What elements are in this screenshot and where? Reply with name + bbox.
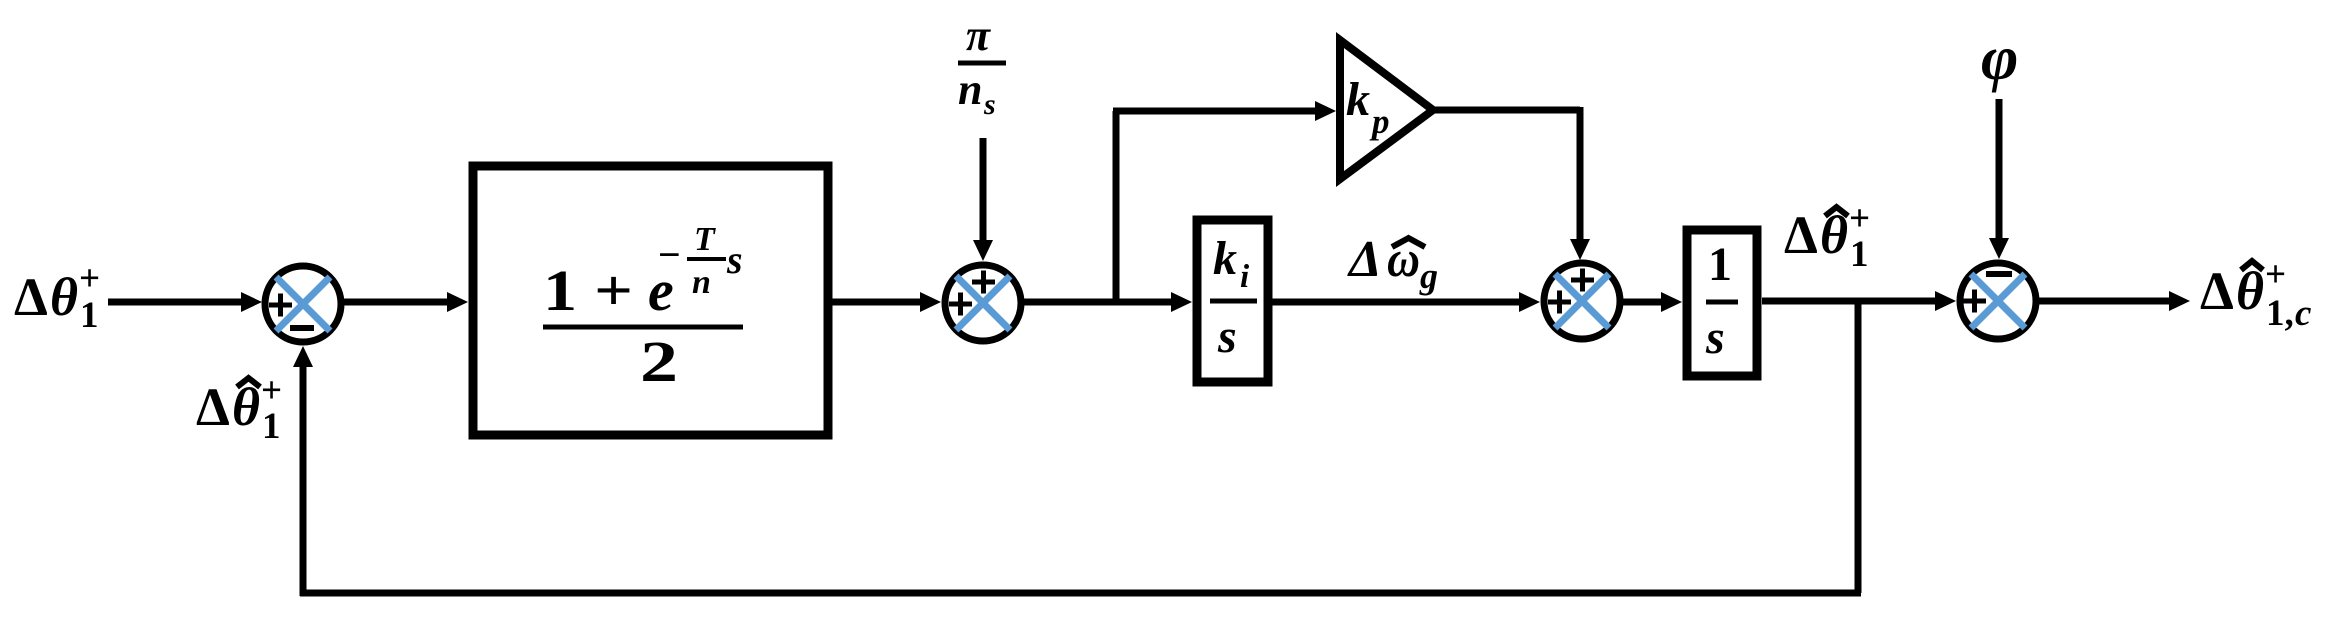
svg-text:1,: 1, [2266,293,2294,334]
svg-text:i: i [1240,259,1250,295]
svg-text:Δ: Δ [14,267,48,327]
svg-text:2: 2 [640,329,678,394]
svg-text:θ: θ [50,267,78,327]
svg-text:s: s [1217,310,1237,363]
svg-text:1 +: 1 + [543,258,633,323]
wire input arrow to sum1 [108,292,262,312]
node label Delta theta_1^+ hat (after 1/s) [1784,198,1870,275]
wire ki/s to sum3 [1272,292,1540,312]
svg-text:g: g [1419,256,1438,296]
svg-text:1: 1 [262,406,281,447]
svg-text:+: + [79,258,100,299]
wire branch up to kp [1113,101,1336,305]
svg-text:p: p [1369,102,1390,141]
svg-text:−: − [658,232,681,277]
summing junction S4 [1960,263,2036,339]
block B2 ki/s [1197,220,1268,382]
wire sum1 to block1 [344,292,468,312]
svg-text:T: T [694,221,716,258]
block B1 transfer function (1+e^{-Ts/n})/2 [473,166,828,435]
node phi label [1981,22,2018,93]
wire sum3 to block 1/s [1623,292,1682,312]
svg-text:φ: φ [1981,22,2018,93]
svg-text:s: s [983,88,996,121]
svg-text:k: k [1213,232,1237,285]
svg-text:k: k [1346,73,1370,126]
summing junction S3 [1544,263,1620,339]
wire kp to sum3 [1433,107,1590,260]
svg-text:+: + [2265,254,2286,295]
svg-text:1: 1 [80,295,99,336]
wire feedback path [293,301,1861,596]
svg-text:Δ: Δ [1347,231,1382,288]
summing junction S2 [945,265,1021,341]
node label Delta omega_g hat [1347,231,1438,296]
wire phi arrow down to sum4 [1989,99,2009,259]
block B3 1/s [1687,230,1757,376]
svg-text:n: n [958,65,982,114]
node input label Delta theta_1^+ [14,258,100,336]
svg-text:Δ: Δ [1784,205,1818,265]
wire output arrow [2039,291,2190,311]
summing junction S1 [265,266,341,342]
svg-text:s: s [1705,311,1725,364]
svg-text:1: 1 [1708,238,1732,291]
svg-text:1: 1 [1850,234,1869,275]
wire pi/n_s arrow down to sum2 [973,138,993,261]
svg-text:Δ: Δ [2200,261,2234,321]
svg-text:+: + [261,370,282,411]
svg-text:n: n [692,264,711,301]
wire sum2 to block ki/s with branch [1024,292,1192,312]
gain triangle kp [1340,40,1433,179]
svg-text:+: + [1849,198,1870,239]
svg-text:Δ: Δ [196,377,230,437]
svg-text:s: s [726,237,743,282]
node output label Delta theta_{1,c}^+ hat [2200,254,2311,334]
node pi/n_s label [958,11,1006,121]
node feedback label Delta theta_1^+ hat [196,370,282,447]
wire block1 to sum2 [832,292,941,312]
svg-text:π: π [966,11,991,60]
wire 1/s to sum4 [1762,291,1956,311]
svg-text:c: c [2295,293,2311,334]
